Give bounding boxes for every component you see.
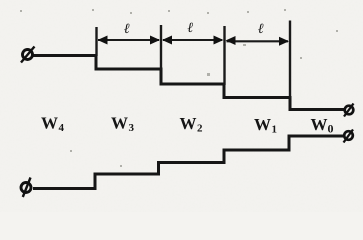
svg-text:W: W <box>111 114 128 133</box>
svg-text:W: W <box>41 114 58 133</box>
svg-text:1: 1 <box>272 124 278 136</box>
svg-text:W: W <box>254 115 271 134</box>
svg-text:ℓ: ℓ <box>188 21 194 36</box>
svg-text:ℓ: ℓ <box>124 22 130 37</box>
svg-text:0: 0 <box>328 122 334 136</box>
svg-text:ℓ: ℓ <box>258 22 264 37</box>
svg-text:3: 3 <box>129 122 135 134</box>
svg-text:2: 2 <box>197 123 203 135</box>
svg-text:W: W <box>311 115 328 134</box>
svg-text:4: 4 <box>59 122 65 134</box>
svg-text:W: W <box>180 114 197 133</box>
